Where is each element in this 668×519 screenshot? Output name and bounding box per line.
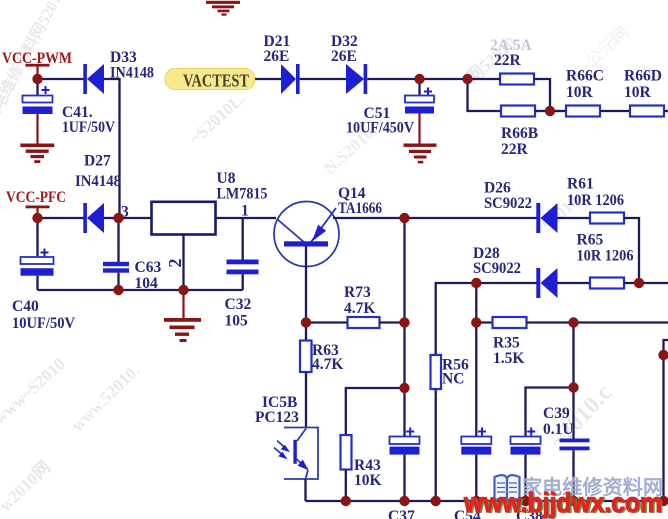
watermark mid-right: [320, 124, 377, 178]
watermark right: [538, 192, 583, 235]
resistor R66B: [501, 106, 538, 159]
svg-text:SC9022: SC9022: [484, 195, 532, 212]
svg-text:C40: C40: [12, 298, 39, 315]
capacitor C40: [12, 218, 76, 332]
junction dot (R35 right node): [568, 317, 578, 327]
wire 22R node to 22R and corner down: [468, 78, 501, 80]
wire junction to R66C: [550, 110, 566, 112]
svg-text:LM7815: LM7815: [217, 186, 268, 203]
label D27: [75, 153, 121, 191]
capacitor C39: [543, 388, 590, 502]
svg-text:2: 2: [165, 259, 185, 268]
diode D32: [331, 33, 367, 94]
wire VCC-PWM to D33: [38, 78, 85, 80]
wire node 3 to U8: [119, 217, 152, 219]
svg-text:C37: C37: [388, 508, 415, 519]
svg-text:4.7K: 4.7K: [344, 300, 375, 317]
svg-text:10R: 10R: [624, 84, 652, 101]
svg-text:www.bjjdwx.com: www.bjjdwx.com: [463, 487, 662, 518]
diode D27: [83, 203, 104, 233]
capacitor C41: [23, 79, 116, 136]
svg-text:R66B: R66B: [501, 125, 538, 142]
svg-text:IN4148: IN4148: [75, 173, 121, 190]
wire D27 to node 3: [104, 217, 119, 219]
watermark bottom-left: [0, 354, 69, 428]
diode D33: [83, 49, 154, 94]
svg-text:C63: C63: [135, 259, 162, 276]
junction dot B: [399, 317, 409, 327]
capacitor C51: [346, 79, 434, 137]
wire U8 pin1 to Q14: [216, 217, 277, 219]
watermark bottom-center: [0, 457, 54, 515]
wire C51 node to 22R node: [420, 78, 468, 80]
wire D33 to corner, down to node 3: [104, 79, 120, 218]
junction dot (parallel resistors): [545, 106, 555, 116]
svg-text:10UF/450V: 10UF/450V: [346, 120, 415, 137]
svg-text:TA1666: TA1666: [338, 200, 382, 217]
svg-text:D33: D33: [110, 49, 137, 66]
wire D21 to D32: [300, 78, 346, 80]
wire 22R node down to R66B row: [468, 79, 502, 111]
svg-text:26E: 26E: [264, 48, 290, 65]
svg-text:10K: 10K: [354, 472, 382, 489]
wire node C to D26: [405, 217, 537, 219]
wire Q14 base down: [305, 247, 307, 323]
watermark book icon: [495, 475, 520, 502]
svg-text:22R: 22R: [501, 141, 529, 158]
wire node A to R73: [306, 321, 348, 323]
svg-text:1.5K: 1.5K: [493, 350, 524, 367]
svg-text:10UF/50V: 10UF/50V: [12, 315, 76, 332]
svg-text:R66D: R66D: [624, 68, 662, 85]
wire VCC-PFC to D27: [38, 217, 84, 219]
watermark lower-right 2010: [545, 380, 617, 454]
junction dot (C37 bus): [399, 496, 409, 506]
wire D28 to R65: [558, 282, 591, 284]
power flag VCC-PFC: [6, 189, 66, 214]
watermark mid-left: [68, 361, 144, 435]
junction dot (R35 left node): [471, 317, 481, 327]
wire to ground below pin2: [182, 290, 184, 318]
svg-text:SC9022: SC9022: [473, 260, 521, 277]
junction dot C (Q14 collector node): [399, 213, 409, 223]
wire VACTEST to D21: [255, 78, 281, 80]
wire D32 to C51 node: [367, 78, 419, 80]
svg-text:R73: R73: [344, 284, 371, 301]
svg-text:R65: R65: [577, 232, 604, 249]
wire R61 corner down to D28 node: [624, 218, 639, 283]
svg-text:D27: D27: [84, 153, 111, 170]
wire D26 to R61: [558, 217, 591, 219]
svg-text:105: 105: [225, 313, 249, 330]
wire node C to node B to node D: [403, 218, 405, 388]
resistor R66D: [624, 68, 664, 117]
watermark top-left: [0, 0, 65, 127]
svg-text:10R: 10R: [566, 84, 594, 101]
wire R56 top corner to D28 row: [436, 283, 477, 355]
power flag VCC-PWM: [2, 50, 72, 75]
optocoupler IC5B: [255, 394, 318, 479]
ground (below C41): [20, 144, 54, 164]
wire R65 to node, right edge: [624, 282, 668, 284]
junction dot (VCC-PFC node): [32, 213, 42, 223]
svg-text:VCC-PFC: VCC-PFC: [6, 189, 66, 206]
svg-text:PC123: PC123: [255, 409, 299, 426]
svg-text:10R 1206: 10R 1206: [567, 192, 624, 209]
junction dot (C54 bus): [471, 496, 481, 506]
wire row2 bottom bus: [38, 289, 243, 291]
svg-text:1UF/50V: 1UF/50V: [62, 119, 116, 136]
junction dot (R56 bus): [431, 496, 441, 506]
diode D21: [264, 33, 300, 94]
resistor R63: [300, 323, 343, 374]
wire R66D to right edge: [664, 110, 668, 112]
resistor R56: [431, 355, 469, 389]
wire R66C to R66D: [600, 110, 630, 112]
junction dot (R43 bus): [341, 496, 351, 506]
svg-text:R66C: R66C: [566, 68, 604, 85]
junction dot (VCC-PWM node): [32, 74, 42, 84]
capacitor C38: [511, 428, 543, 519]
wire C51 to ground (maroon): [418, 114, 420, 145]
wire node to R35: [476, 321, 492, 323]
svg-text:R35: R35: [493, 335, 520, 352]
wire Q14 to D26 node: [333, 217, 405, 219]
svg-text:D26: D26: [484, 180, 511, 197]
capacitor C37: [388, 388, 420, 519]
resistor R66C: [566, 68, 604, 117]
transistor Q14: [274, 185, 382, 267]
ground (below U8): [164, 318, 201, 342]
junction dot node 3: [113, 213, 123, 223]
wire C41 to ground (maroon): [36, 114, 38, 144]
svg-text:4.7K: 4.7K: [312, 356, 343, 373]
junction dot (C38 bus): [520, 496, 530, 506]
svg-text:C39: C39: [543, 405, 570, 422]
junction dot D (C37 node): [399, 383, 409, 393]
junction dot (C39 node): [568, 382, 578, 392]
wire R63 to IC5B: [305, 372, 307, 428]
svg-text:VACTEST: VACTEST: [183, 71, 249, 91]
wire IC5B emitter to bus: [304, 479, 306, 501]
wire R35 right node down to C38/C39 row: [572, 323, 574, 388]
diode D26: [484, 180, 558, 234]
resistor R65: [577, 232, 634, 289]
wire D28 node down to R35 node: [475, 283, 477, 323]
wire to D28: [476, 282, 536, 284]
junction dot (C39 bus): [568, 496, 578, 506]
junction dot A (base node): [301, 317, 311, 327]
regulator U8 LM7815: [152, 170, 268, 235]
junction dot (C63 bottom): [113, 285, 123, 295]
svg-text:10R 1206: 10R 1206: [577, 248, 634, 265]
capacitor C54: [454, 428, 491, 519]
wire R56 down to bus: [435, 389, 437, 501]
wire C54 branch down: [475, 323, 477, 438]
svg-text:22R: 22R: [494, 52, 522, 69]
wire U8 pin2 down: [182, 235, 184, 291]
resistor R73: [344, 284, 380, 328]
wire R73 to node B: [380, 321, 405, 323]
bottom bus wire: [306, 500, 664, 502]
capacitor C32: [225, 218, 259, 330]
resistor R61: [567, 176, 624, 224]
net label VACTEST: [165, 69, 255, 91]
resistor 22R (top, fuse row): [490, 37, 534, 85]
junction dot (U8 pin2 bottom): [178, 285, 188, 295]
diode D28: [473, 245, 558, 298]
junction dot (D28 row / C54 branch): [471, 278, 481, 288]
ground (top): [206, 1, 240, 16]
wire R66B to junction: [535, 110, 550, 112]
wire node B row5 corner to R43: [346, 388, 405, 435]
junction dot (box bus): [658, 496, 668, 506]
capacitor C63: [103, 218, 161, 292]
svg-text:U8: U8: [217, 170, 236, 187]
svg-text:0.1U: 0.1U: [543, 421, 574, 438]
junction dot (R61/R65 node): [634, 278, 644, 288]
junction dot (22R node): [462, 74, 472, 84]
svg-text:R61: R61: [567, 176, 594, 193]
wire C38 corner: [526, 388, 574, 438]
ground (below C51): [404, 144, 437, 164]
wire R35 to right node and edge: [527, 321, 668, 323]
watermark behind VACTEST: [186, 88, 249, 148]
wire R43 to bus: [345, 470, 347, 502]
resistor R43: [341, 435, 382, 489]
resistor R35: [493, 317, 527, 367]
svg-text:NC: NC: [442, 371, 464, 388]
junction dot (box pin): [658, 350, 668, 360]
svg-text:C32: C32: [225, 296, 252, 313]
junction dot (C51 node): [414, 74, 424, 84]
connector box right edge: [664, 340, 668, 501]
svg-text:26E: 26E: [331, 48, 357, 65]
watermark top-right: [463, 33, 520, 87]
